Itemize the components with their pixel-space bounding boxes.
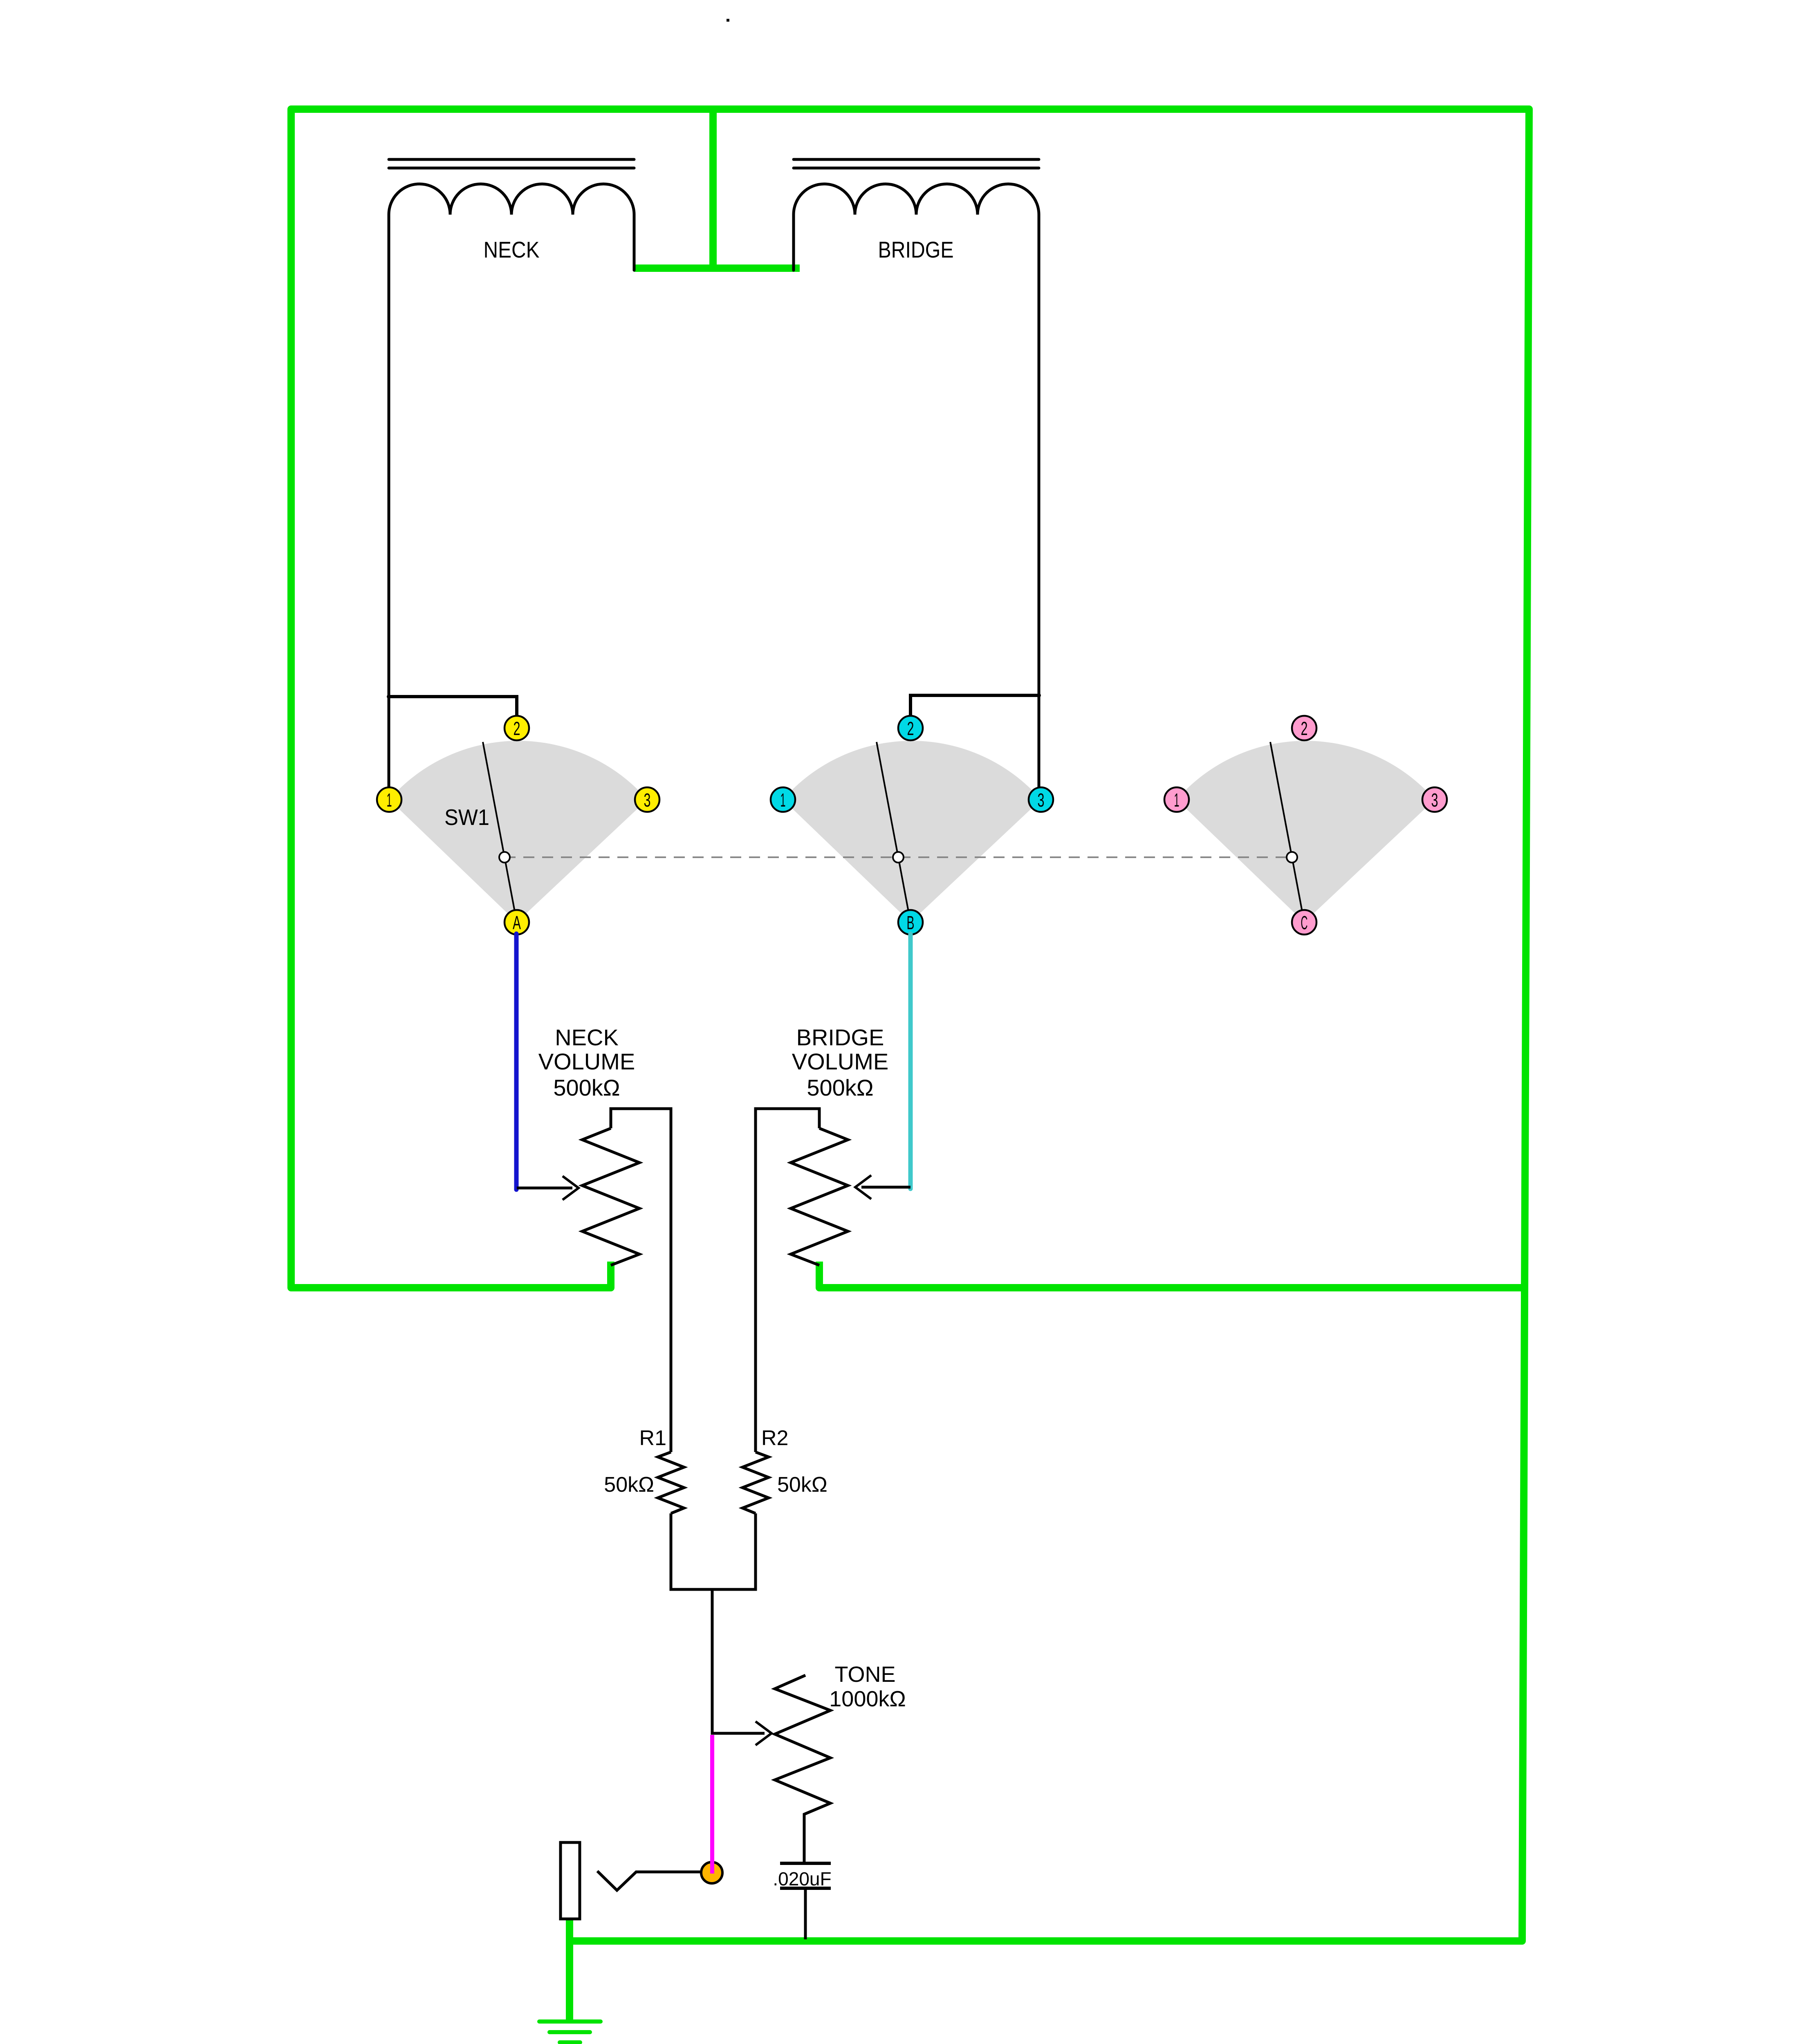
pole B terminal 1	[771, 787, 795, 812]
capacitor bottom lead to ground bus	[804, 1890, 807, 1939]
BRIDGE pickup core lines	[794, 159, 1039, 168]
svg-text:2: 2	[514, 718, 520, 739]
svg-text:B: B	[907, 912, 915, 933]
bridge volume top lead to R2	[756, 1109, 819, 1452]
pole C terminal 1	[1164, 787, 1189, 812]
output jack body	[561, 1842, 580, 1919]
svg-text:3: 3	[644, 789, 651, 811]
svg-text:1: 1	[387, 789, 392, 811]
wire: jack sleeve to chassis ground (green)	[566, 1919, 573, 2022]
svg-text:1000kΩ: 1000kΩ	[829, 1687, 906, 1711]
svg-text:VOLUME: VOLUME	[792, 1049, 889, 1074]
wire: summing node down to tone wiper	[712, 1589, 765, 1733]
potentiometer: TONE 1000k element	[775, 1675, 830, 1862]
NECK pickup core lines	[389, 159, 634, 168]
bridge volume wiper arrowhead	[855, 1175, 871, 1199]
wire: tone wiper to jack tip (magenta)	[710, 1735, 714, 1874]
wire: neck branch to SW1 terminal 2	[389, 697, 517, 717]
pole C terminal 3	[1422, 787, 1447, 812]
svg-text:R1: R1	[639, 1426, 666, 1450]
wire: R1/R2 junction to tone/output	[671, 1513, 756, 1589]
pole C pivot	[1287, 852, 1297, 863]
potentiometer: NECK VOLUME 500k element	[582, 1128, 639, 1265]
rotary switch pole B wedge	[783, 741, 1041, 922]
ground symbol	[539, 2022, 601, 2042]
SW1 terminal 3	[635, 787, 659, 812]
svg-text:NECK: NECK	[555, 1024, 619, 1050]
capacitor C1 plates	[780, 1863, 831, 1888]
svg-text:2: 2	[907, 718, 914, 739]
resistor R1	[658, 1452, 684, 1513]
pole B pivot	[893, 852, 904, 863]
svg-text:R2: R2	[761, 1426, 788, 1450]
neck volume top lead to R1	[611, 1109, 671, 1452]
svg-text:3: 3	[1038, 789, 1045, 811]
svg-text:TONE: TONE	[834, 1662, 895, 1687]
inductor: NECK pickup coil	[389, 184, 634, 787]
wire: SW-B B to bridge volume wiper (cyan)	[908, 934, 913, 1189]
SW1 terminal 1	[377, 787, 401, 812]
pole B wiper	[877, 742, 910, 922]
tone wiper arrowhead	[756, 1721, 771, 1745]
neck volume wiper lead	[517, 1187, 572, 1190]
junction: neck branch tee	[387, 695, 391, 699]
rotary switch SW1 pole A wedge	[389, 741, 647, 922]
svg-text:500kΩ: 500kΩ	[807, 1075, 873, 1100]
SW1 common A	[505, 910, 529, 935]
svg-text:SW1: SW1	[444, 805, 489, 830]
svg-text:BRIDGE: BRIDGE	[878, 237, 954, 262]
page artifact dot	[727, 19, 729, 22]
neck volume wiper arrowhead	[563, 1176, 579, 1200]
wire: green bus from bridge volume ground to right border	[819, 1262, 1525, 1288]
junction: bridge branch tee	[1037, 693, 1041, 697]
inductor: BRIDGE pickup coil	[794, 184, 1039, 787]
svg-text:1: 1	[1174, 789, 1180, 811]
svg-text:C: C	[1301, 912, 1308, 933]
svg-text:A: A	[513, 912, 521, 933]
pole B terminal 2	[898, 716, 923, 740]
SW1 pivot	[499, 852, 510, 863]
svg-text:1: 1	[780, 789, 786, 811]
resistor R2	[742, 1452, 769, 1513]
svg-text:BRIDGE: BRIDGE	[796, 1024, 884, 1050]
pole C common C	[1292, 910, 1316, 935]
bridge volume wiper lead	[861, 1186, 910, 1189]
svg-text:.020uF: .020uF	[773, 1868, 831, 1889]
pole C wiper	[1270, 742, 1304, 922]
svg-text:50kΩ: 50kΩ	[604, 1473, 654, 1497]
svg-text:2: 2	[1301, 718, 1308, 739]
svg-text:500kΩ: 500kΩ	[553, 1075, 620, 1100]
wire: SW1 A to neck volume wiper (blue)	[514, 934, 519, 1190]
svg-text:3: 3	[1431, 789, 1438, 811]
jack hot terminal (orange)	[701, 1862, 722, 1883]
jack tip spring contact	[597, 1871, 702, 1890]
rotary switch pole C wedge	[1177, 741, 1435, 922]
wire: bridge branch to SW-B terminal 2	[910, 695, 1039, 717]
SW1 terminal 2	[505, 716, 529, 740]
pole B terminal 3	[1029, 787, 1053, 812]
svg-text:50kΩ: 50kΩ	[777, 1473, 828, 1497]
pole B common B	[898, 910, 923, 935]
dashed alignment line between poles	[505, 856, 1292, 858]
svg-text:NECK: NECK	[484, 237, 540, 262]
potentiometer: BRIDGE VOLUME 500k element	[791, 1128, 848, 1265]
SW1 wiper	[483, 742, 517, 922]
wire: green trunk from top border down to pickup commons	[634, 109, 800, 268]
svg-text:VOLUME: VOLUME	[538, 1049, 635, 1074]
wire: green shield/ground main loop	[291, 109, 1529, 1941]
pole C terminal 2	[1292, 716, 1316, 740]
